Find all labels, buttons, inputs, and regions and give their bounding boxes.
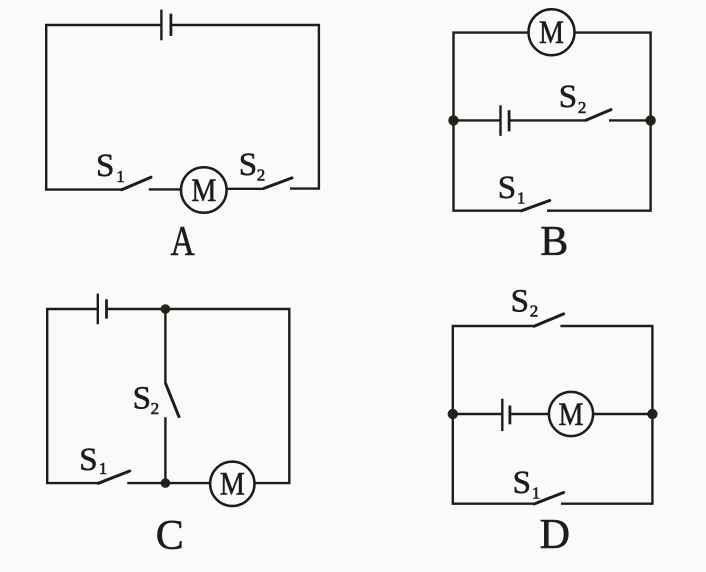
svg-text:A: A [170, 219, 195, 265]
svg-text:S: S [239, 147, 257, 183]
label S2 (circuit A) [239, 147, 265, 185]
battery (circuit C) short plate [105, 299, 108, 318]
wire: motor to S2 contact (circuit A) [227, 188, 264, 190]
svg-text:2: 2 [578, 98, 587, 117]
switch S2 (circuit A) blade [264, 178, 292, 189]
label S1 (circuit D) [513, 465, 541, 502]
svg-text:S: S [96, 148, 114, 184]
switch S1 (circuit A) blade [122, 177, 151, 190]
wire: left node to battery (circuit B) [454, 119, 501, 121]
switch S1 (circuit C) blade [98, 471, 130, 483]
svg-text:S: S [79, 442, 97, 478]
svg-text:M: M [220, 466, 245, 503]
svg-text:1: 1 [116, 167, 125, 186]
wire: battery to S2 contact (circuit B) [509, 119, 586, 121]
node: left junction dot (circuit D) [448, 409, 458, 419]
label S2 (circuit D) [511, 283, 539, 320]
switch S2 (circuit B) blade [586, 110, 611, 121]
wire: S2 fixed contact down to bottom node (circuit C) [164, 417, 166, 483]
switch S1 (circuit B) blade [521, 201, 549, 211]
label S1 (circuit B) [498, 170, 526, 208]
battery (circuit D) long plate [501, 399, 503, 431]
wire: S1 fixed contact to motor (circuit A) [149, 188, 182, 190]
label S1 (circuit C) [79, 442, 107, 478]
wire C: top-left + left side + bottom-left run [47, 309, 98, 483]
wire C: top-right + right side + down to motor (circuit C) [107, 309, 290, 483]
wire B: top-left + left side + bottom-left run [454, 33, 529, 211]
svg-text:M: M [191, 172, 216, 209]
switch S2 (circuit C) blade [166, 384, 179, 417]
svg-text:2: 2 [151, 399, 160, 418]
wire: top node down to S2 contact (circuit C) [164, 309, 166, 384]
wire B: top-right + right side + bottom-right run [547, 33, 651, 211]
wire: S2 fixed contact to right node (circuit B) [609, 119, 651, 121]
wire: battery to motor (circuit D) [510, 413, 549, 415]
svg-text:2: 2 [257, 165, 266, 184]
svg-text:S: S [513, 465, 531, 501]
label S1 (circuit A) [96, 148, 125, 186]
svg-text:S: S [498, 170, 516, 206]
battery (circuit D) short plate [508, 406, 511, 425]
svg-text:1: 1 [517, 188, 526, 207]
wire D: top-right + right side + bottom-right run [560, 326, 652, 504]
switch S1 (circuit D) blade [534, 493, 563, 504]
label S2 (circuit B) [559, 79, 587, 117]
battery (circuit B) long plate [499, 105, 501, 136]
battery (circuit A) short plate [169, 14, 172, 36]
motor M (circuit C) [210, 462, 254, 506]
svg-text:1: 1 [532, 484, 541, 503]
motor M (circuit A) [181, 167, 227, 213]
wire: bottom node to motor (circuit C) [165, 482, 210, 484]
battery (circuit B) short plate [508, 110, 511, 131]
node: bottom junction dot (circuit C) [161, 478, 171, 488]
battery (circuit C) long plate [97, 294, 99, 325]
motor M (circuit B) [529, 9, 575, 55]
svg-text:M: M [539, 14, 564, 51]
wire D: top-left + left side + bottom-left run [453, 326, 535, 504]
wire: S1 fixed contact to bottom node (circuit C) [127, 482, 165, 484]
svg-text:1: 1 [99, 459, 108, 478]
node: top junction dot (circuit C) [161, 304, 171, 314]
wire A: top-left + left side + bottom-left run [46, 25, 161, 190]
battery (circuit A) long plate [160, 10, 162, 41]
svg-text:C: C [156, 513, 184, 559]
switch S2 (circuit D) blade [534, 314, 564, 326]
svg-text:S: S [133, 381, 151, 417]
svg-text:S: S [559, 79, 577, 115]
motor M (circuit D) [549, 392, 593, 436]
wire: left node to battery (circuit D) [453, 413, 502, 415]
svg-text:S: S [511, 283, 529, 319]
svg-text:D: D [540, 512, 570, 558]
node: right junction dot (circuit B) [645, 115, 655, 125]
wire A: top-right + right side + bottom-right run [171, 25, 319, 189]
node: left junction dot (circuit B) [448, 115, 458, 125]
svg-text:M: M [559, 396, 584, 433]
node: right junction dot (circuit D) [647, 409, 657, 419]
label S2 (circuit C) [133, 381, 160, 419]
svg-text:B: B [540, 219, 568, 265]
wire: motor to right node (circuit D) [593, 413, 652, 415]
svg-text:2: 2 [530, 301, 539, 320]
